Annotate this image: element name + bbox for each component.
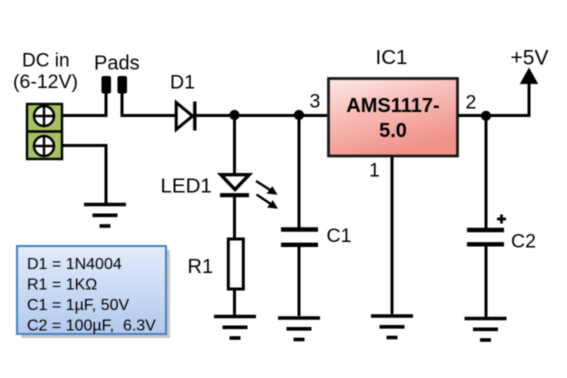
svg-text:5.0: 5.0 [379, 120, 407, 142]
svg-text:1: 1 [369, 160, 380, 182]
svg-text:D1: D1 [170, 72, 195, 94]
svg-text:C1: C1 [327, 225, 352, 247]
svg-text:(6-12V): (6-12V) [13, 71, 78, 93]
connector J1 divider [26, 130, 63, 132]
wire terminal bottom screw to ground [63, 146, 106, 204]
capacitor C1 [281, 230, 318, 245]
diode D1 [176, 102, 195, 131]
ground under R1 [214, 317, 256, 339]
LED light arrow 1 [256, 181, 278, 195]
legend box shadow [21, 250, 170, 338]
+5V arrow [520, 68, 538, 118]
ground under terminal [84, 205, 126, 227]
pad P1 [102, 76, 112, 94]
wire rail down to C1 [298, 116, 301, 229]
svg-text:AMS1117-: AMS1117- [346, 95, 439, 117]
svg-text:D1 = 1N4004: D1 = 1N4004 [27, 256, 122, 273]
node junction at C2 branch [481, 111, 491, 121]
wire pad P2 down to rail [122, 92, 175, 116]
wire D1 to IC pin 3 [196, 114, 327, 117]
wire rail down to C2 [485, 116, 488, 229]
wire IC pin 1 to ground [391, 157, 394, 314]
wire R1 to ground [233, 289, 236, 315]
svg-text:LED1: LED1 [161, 175, 212, 198]
svg-text:IC1: IC1 [376, 46, 408, 69]
wire rail down to LED1 [233, 116, 236, 175]
wire C1 to ground [298, 246, 301, 316]
ground under C1 [278, 318, 320, 340]
connector J1 terminal block body [27, 104, 62, 159]
LED light arrow 2 [257, 195, 279, 209]
wire terminal top screw to pad P1 [63, 92, 106, 116]
connector J1 screw 1 [33, 105, 55, 127]
pad P2 [118, 76, 128, 94]
node junction at LED branch [229, 110, 239, 120]
svg-text:2: 2 [466, 92, 477, 114]
svg-text:C2 = 100µF, 6.3V: C2 = 100µF, 6.3V [27, 318, 156, 335]
LED LED1 [220, 175, 249, 196]
svg-text:R1: R1 [188, 256, 214, 278]
polarity plus of C2 [497, 215, 506, 224]
svg-text:R1 = 1KΩ: R1 = 1KΩ [27, 277, 97, 294]
wire IC pin 2 to +5V [458, 114, 531, 117]
svg-text:C2: C2 [511, 231, 536, 253]
svg-text:DC in: DC in [22, 51, 70, 72]
svg-text:+5V: +5V [511, 47, 549, 70]
svg-text:Pads: Pads [94, 53, 140, 75]
svg-text:C1 = 1µF, 50V: C1 = 1µF, 50V [27, 297, 129, 314]
ground under C2 [465, 319, 507, 341]
wire C2 to ground [485, 246, 488, 318]
svg-text:3: 3 [310, 91, 321, 113]
connector J1 screw 2 [33, 135, 55, 157]
ground under IC pin 1 [371, 316, 413, 338]
resistor R1 [228, 239, 243, 289]
node junction at C1 branch [294, 110, 304, 120]
capacitor C2 [467, 230, 504, 244]
regulator IC1 body [329, 79, 458, 157]
wire LED1 to R1 [233, 196, 236, 239]
legend box [17, 246, 166, 334]
